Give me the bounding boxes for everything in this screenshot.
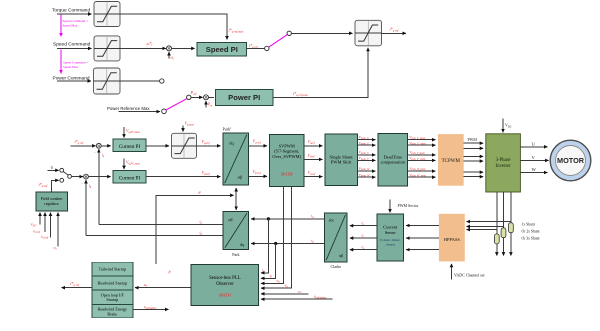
SECTION: bottom observer xyxy=(62,186,348,317)
svg-text:MOTOR: MOTOR xyxy=(557,156,585,165)
svg-text:3-Phase: 3-Phase xyxy=(496,158,511,163)
wire power command input xyxy=(57,80,91,82)
wire iu to clarke xyxy=(350,225,377,227)
wire power junction to Power PI xyxy=(208,96,214,98)
motor M1 xyxy=(550,140,591,181)
wire Vcom V pwm xyxy=(408,154,436,156)
block Park xyxy=(223,212,248,250)
svg-text:Current PI: Current PI xyxy=(119,144,141,150)
svg-text:Speed Command <: Speed Command < xyxy=(63,19,88,23)
wire omega stub to observer xyxy=(261,293,309,295)
wire shunt leg 2 xyxy=(503,192,505,256)
wire switch blade d-axis xyxy=(63,172,68,176)
wire to d summing junction xyxy=(72,176,83,178)
svg-text:PWM Sector: PWM Sector xyxy=(398,203,419,208)
wire iq feedback horizontal xyxy=(99,224,223,226)
wire Vpwm U xyxy=(357,139,375,141)
block Current PI d xyxy=(113,171,146,184)
svg-text:MATH: MATH xyxy=(280,172,294,177)
SECTION: top command rows xyxy=(52,2,406,114)
wire power command to open throw xyxy=(120,80,159,82)
wire magenta switch blade speed xyxy=(269,35,288,48)
wire iq ref output xyxy=(382,32,407,34)
svg-text:compensation: compensation xyxy=(381,160,406,165)
wire iq feedback vertical xyxy=(98,149,100,225)
svg-text:abc: abc xyxy=(329,218,335,223)
wire pwm line 3 xyxy=(464,155,484,157)
block startup stack xyxy=(92,262,133,318)
svg-text:Sense: Sense xyxy=(385,230,396,235)
wire V beta ref xyxy=(248,175,267,177)
wire VADC channel stub xyxy=(451,264,453,280)
wire id feedback horizontal xyxy=(86,235,223,237)
block field weaken regulator xyxy=(36,192,68,211)
saturation block power limit xyxy=(94,68,121,94)
shunt resistor R1 xyxy=(494,234,499,244)
wire theta to park xyxy=(235,195,237,210)
svg-text:αβ: αβ xyxy=(238,174,243,179)
svg-text:Torque Command: Torque Command xyxy=(52,8,90,14)
svg-text:Inverter: Inverter xyxy=(496,164,511,169)
wire i beta clarke to park xyxy=(251,243,324,245)
wire iv to clarke xyxy=(350,237,377,239)
svg-text:Clarke: Clarke xyxy=(330,264,341,269)
svg-text:Observer: Observer xyxy=(216,282,234,287)
wire power PI output to iq limit xyxy=(273,48,368,98)
wire Vpwm W xyxy=(357,170,375,172)
svg-text:θ: θ xyxy=(169,271,171,275)
wire hppass to current sense 2 xyxy=(406,237,439,239)
block SVPWM xyxy=(270,135,305,187)
wire V wref xyxy=(304,176,322,178)
wire Vpwm V xyxy=(357,154,375,156)
wire torque to iq-ref-max (Speed PI limit) xyxy=(120,14,227,40)
wire V uref xyxy=(304,145,322,147)
node switch common power xyxy=(187,95,191,99)
svg-text:Parkt: Parkt xyxy=(223,126,232,131)
block Power PI xyxy=(216,90,274,106)
wire to power summing junction xyxy=(191,96,203,98)
node switch common d-axis xyxy=(68,175,72,179)
node q summing junction xyxy=(96,143,101,148)
wire Vcom U pwm xyxy=(408,139,436,141)
block Current Sense xyxy=(377,214,404,261)
wire magenta speed-command-limit arrow 1 xyxy=(60,15,62,37)
svg-text:PWM Shift: PWM Shift xyxy=(331,160,352,165)
node switch common speed xyxy=(287,31,291,35)
wire zero reference stub xyxy=(48,169,59,171)
svg-text:Or 2x Shunt: Or 2x Shunt xyxy=(522,230,540,234)
wire Vd ref input stub xyxy=(44,213,46,233)
wire VDC input stub xyxy=(39,213,41,225)
svg-text:αβ: αβ xyxy=(339,253,343,258)
svg-text:Current: Current xyxy=(383,225,398,230)
wire Vcom W pwm xyxy=(408,170,436,172)
svg-text:Vq,PC,max: Vq,PC,max xyxy=(126,129,141,134)
wire V beta tap to observer xyxy=(261,186,292,288)
wire current PI q to limiter xyxy=(146,145,169,147)
node junction i beta xyxy=(274,242,277,245)
svg-text:HPPASS: HPPASS xyxy=(444,237,461,242)
wire Vcom Un pwm xyxy=(408,144,436,146)
node switch throw speed xyxy=(265,46,269,50)
svg-text:Speed PI: Speed PI xyxy=(206,45,238,54)
block Speed PI xyxy=(197,42,247,56)
wire VDC into inverter xyxy=(502,119,504,133)
svg-text:VADC Channel set: VADC Channel set xyxy=(454,273,485,278)
wire pwm line 4 xyxy=(464,160,484,162)
wire i beta to observer xyxy=(261,244,276,279)
svg-text:W: W xyxy=(532,167,537,172)
wire Vq PC max stub xyxy=(123,127,125,138)
wire magenta switch blade power xyxy=(166,99,187,110)
svg-text:Current PI: Current PI xyxy=(119,175,141,181)
wire Vq ref input stub xyxy=(50,213,52,238)
block DeadTime compensation xyxy=(378,134,408,187)
node switch throw power ref max xyxy=(162,109,167,114)
wire Vq ref to park xyxy=(197,145,221,147)
svg-text:Speed Command <: Speed Command < xyxy=(63,61,88,65)
svg-text:Startup: Startup xyxy=(106,297,118,302)
wire V vref xyxy=(304,158,322,160)
wire phase V xyxy=(520,159,548,161)
wire pwm line 2 xyxy=(464,147,484,149)
wire theta to park inverse xyxy=(235,188,237,195)
wire pwm line 6 xyxy=(464,176,484,178)
svg-text:0: 0 xyxy=(51,166,53,170)
svg-text:MATH: MATH xyxy=(218,293,232,298)
block 3-Phase Inverter xyxy=(486,134,521,192)
wire we input stub xyxy=(57,213,59,247)
node switch throw power command (open) xyxy=(160,79,164,83)
SECTION: right chain xyxy=(270,119,591,280)
block HPPASS xyxy=(439,214,465,262)
wire iq ref input xyxy=(71,145,96,147)
svg-text:i*q ref,max: i*q ref,max xyxy=(293,91,308,98)
block Clarke xyxy=(325,213,348,262)
wire shunt tap 2 to HPPASS xyxy=(467,226,504,228)
svg-text:TCPWM: TCPWM xyxy=(442,159,461,164)
wire i alpha to observer xyxy=(261,219,268,273)
svg-text:i*q ref,max: i*q ref,max xyxy=(229,28,244,35)
wire Pm feedback stub xyxy=(205,101,207,108)
block Current PI q xyxy=(113,139,146,152)
wire i alpha clarke to park xyxy=(251,218,324,220)
svg-text:Headwind Startup: Headwind Startup xyxy=(97,281,127,286)
wire speed command input xyxy=(57,47,92,49)
wire Vq max stub xyxy=(182,126,184,132)
svg-text:Tailwind Startup: Tailwind Startup xyxy=(99,267,126,272)
wire Vd PC max stub xyxy=(123,159,125,170)
block Sensor-less PLL Observer xyxy=(191,265,259,306)
label shunt options xyxy=(522,223,540,241)
wire pwm line 5 xyxy=(464,171,484,173)
wire observer wr to startup xyxy=(135,287,191,289)
wire speed PI output xyxy=(247,47,265,49)
wire theta from observer vertical xyxy=(156,195,234,264)
svg-text:dq: dq xyxy=(240,242,244,247)
wire Vpwm Wn xyxy=(357,176,375,178)
wire speed feedback stub xyxy=(168,52,170,59)
svg-text:dq: dq xyxy=(229,141,234,146)
wire hppass to current sense 1 xyxy=(406,225,439,227)
wire theta estimation stub to observer xyxy=(261,298,333,300)
wire shunt leg 1 xyxy=(496,192,498,256)
wire Vd ref to park xyxy=(146,176,220,178)
wire pwm line 1 xyxy=(464,142,484,144)
wire speed junction to Speed PI xyxy=(171,47,194,49)
wire torque command input xyxy=(57,13,92,15)
node switch throw id ref xyxy=(60,178,64,182)
wire phase U xyxy=(520,146,547,148)
wire Vpwm Un xyxy=(357,144,375,146)
saturation block torque limit xyxy=(94,2,120,27)
wire V alpha tap to observer xyxy=(261,186,284,283)
saturation block speed limit xyxy=(94,36,120,61)
svg-text:Vd,PC,max: Vd,PC,max xyxy=(126,161,141,166)
wire PWM sector stub xyxy=(389,200,391,213)
svg-text:Power Reference Max: Power Reference Max xyxy=(107,106,150,111)
wire shunt tap 1 to HPPASS xyxy=(467,229,497,231)
svg-text:αβ: αβ xyxy=(228,217,232,222)
wire shunt tap 3 to HPPASS xyxy=(467,221,511,223)
svg-text:1shunt): 1shunt) xyxy=(386,243,395,247)
svg-text:regulator: regulator xyxy=(44,201,59,206)
wire shunt leg 3 xyxy=(510,192,512,256)
node junction i alpha xyxy=(267,217,270,220)
svg-text:Speed Max: Speed Max xyxy=(63,65,78,69)
wire startup iq ref output xyxy=(62,287,92,289)
wire speed ref to summing junction xyxy=(120,47,166,49)
svg-text:θ: θ xyxy=(199,191,201,195)
svg-text:Speed Max: Speed Max xyxy=(63,23,78,27)
svg-text:PWM: PWM xyxy=(468,138,478,142)
wire power reference max xyxy=(119,111,160,113)
wire id feedback vertical xyxy=(85,180,87,236)
svg-text:Sensor-less PLL: Sensor-less PLL xyxy=(209,276,241,281)
svg-text:Power PI: Power PI xyxy=(228,93,260,102)
wire q junction to Current PI xyxy=(101,145,111,147)
svg-text:Vq,max: Vq,max xyxy=(185,122,195,127)
wire theta estimation output xyxy=(133,308,169,310)
svg-text:Speed Command: Speed Command xyxy=(53,42,91,48)
node switch throw zero xyxy=(60,168,64,172)
wire V alpha ref xyxy=(248,145,267,147)
wire magenta speed-command-limit arrow 2 xyxy=(60,49,62,73)
wire field weaken output xyxy=(52,180,59,191)
svg-text:1x Shunt: 1x Shunt xyxy=(522,223,535,227)
svg-text:Over_SVPWM): Over_SVPWM) xyxy=(272,154,301,159)
wire Vcom Wn pwm xyxy=(408,176,436,178)
shunt resistor R3 xyxy=(509,223,514,233)
wire hppass to current sense 3 xyxy=(406,249,439,251)
node speed summing junction xyxy=(167,46,172,51)
block Single Shunt PWM Shift xyxy=(325,134,357,186)
wire d junction to Current PI xyxy=(88,176,111,178)
node d summing junction xyxy=(84,174,89,179)
block inverse Park xyxy=(223,133,249,185)
wire phase W xyxy=(520,172,547,174)
svg-text:Brake: Brake xyxy=(107,311,117,316)
SECTION: middle current loop xyxy=(31,122,268,251)
saturation block iq ref limit xyxy=(355,20,382,46)
wire Vcom Vn pwm xyxy=(408,159,436,161)
wire Vpwm Vn xyxy=(357,159,375,161)
block TCPWM xyxy=(438,134,464,186)
svg-text:Or 3x Shunt: Or 3x Shunt xyxy=(522,237,540,241)
shunt resistor R2 xyxy=(501,228,506,238)
saturation block Vq limit xyxy=(172,133,197,158)
svg-text:Park: Park xyxy=(232,252,239,257)
wire to q current limiter xyxy=(291,32,352,34)
wire iw to clarke xyxy=(350,249,377,251)
node power summing junction xyxy=(204,95,209,100)
